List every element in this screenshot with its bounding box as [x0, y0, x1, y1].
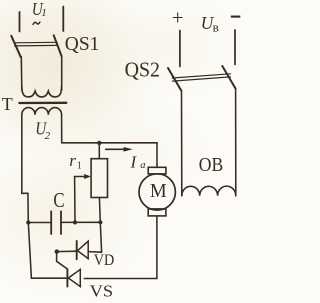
field winding OB: [182, 186, 236, 196]
thyristor VS gate lead: [57, 252, 68, 269]
switch QS1 left blade: [11, 36, 20, 57]
node dot on left rail at capacitor: [26, 220, 30, 224]
wire: QS2 right pole down to OB: [235, 88, 237, 196]
wire: secondary left rail down: [22, 115, 32, 278]
svg-text:в: в: [213, 20, 219, 35]
svg-text:QS1: QS1: [65, 33, 100, 55]
switch QS2 left blade: [168, 68, 181, 91]
motor M circle: [139, 174, 175, 210]
diode VD triangle: [78, 241, 89, 258]
switch QS1 linkage bar lower: [15, 44, 58, 47]
wire: VS cathode to left rail: [31, 277, 67, 279]
wire: r1 bottom down to VD: [99, 198, 101, 253]
wire: VD anode to r1 branch: [88, 251, 101, 254]
svg-text:C: C: [53, 188, 64, 212]
node dot at VD/gate: [55, 249, 59, 253]
capacitor C right plate: [60, 211, 62, 234]
transformer T secondary winding: [22, 108, 62, 115]
rheostat wiper arrow: [75, 176, 86, 178]
wire: motor bottom down and to VS: [84, 216, 157, 279]
motor M top brush: [148, 167, 166, 174]
wire: left rail to capacitor: [28, 222, 50, 224]
svg-text:VS: VS: [90, 282, 114, 301]
svg-text:1: 1: [77, 161, 82, 172]
wire: dot to VD cathode: [57, 250, 77, 252]
wire: top horizontal to motor: [62, 143, 157, 168]
node dot wiper/cap: [73, 220, 77, 224]
svg-text:VD: VD: [94, 252, 115, 269]
capacitor C left plate: [50, 211, 52, 234]
switch QS2 linkage bar lower: [172, 77, 230, 81]
svg-text:T: T: [2, 94, 13, 114]
right circuit: wire + terminal down: [179, 31, 181, 67]
svg-text:OB: OB: [199, 154, 223, 176]
svg-text:+: +: [172, 6, 184, 30]
motor M bottom brush: [148, 209, 166, 216]
right circuit: wire - terminal down: [234, 30, 236, 65]
svg-text:r: r: [69, 151, 76, 170]
current arrow Ia: [106, 148, 125, 150]
resistor r1 (rheostat body): [91, 159, 107, 198]
thyristor VS triangle: [68, 269, 80, 286]
label minus: [231, 16, 241, 18]
svg-text:M: M: [150, 180, 167, 202]
terminal tick right of U1: [62, 7, 64, 32]
wire: node down into r1: [98, 143, 100, 159]
wire: QS2 left pole down to OB: [181, 90, 183, 196]
switch QS1 right blade: [54, 35, 62, 56]
svg-text:a: a: [140, 160, 145, 171]
wire: wiper down to capacitor node: [74, 177, 76, 223]
switch QS1 linkage bar upper: [15, 41, 58, 44]
diode VD cathode bar: [76, 241, 78, 259]
transformer T primary winding: [22, 86, 62, 97]
transformer T core: [19, 102, 66, 104]
wire: secondary right rail down to node: [61, 115, 63, 143]
switch QS2 linkage bar upper: [172, 74, 230, 78]
node dot r1/cap: [98, 220, 102, 224]
svg-text:2: 2: [45, 130, 51, 142]
svg-text:1: 1: [41, 7, 47, 19]
wire: capacitor to r1 node: [62, 221, 101, 223]
svg-text:QS2: QS2: [125, 58, 160, 82]
switch QS2 right blade: [222, 66, 235, 89]
terminal tick left of U1: [19, 12, 21, 32]
wire: QS1 left pole down to transformer primary: [20, 57, 23, 90]
node dot above r1: [97, 141, 101, 145]
wire: QS1 right pole down to transformer primary: [61, 56, 63, 90]
thyristor VS cathode bar: [66, 269, 68, 286]
tilde under U1: [33, 22, 40, 25]
